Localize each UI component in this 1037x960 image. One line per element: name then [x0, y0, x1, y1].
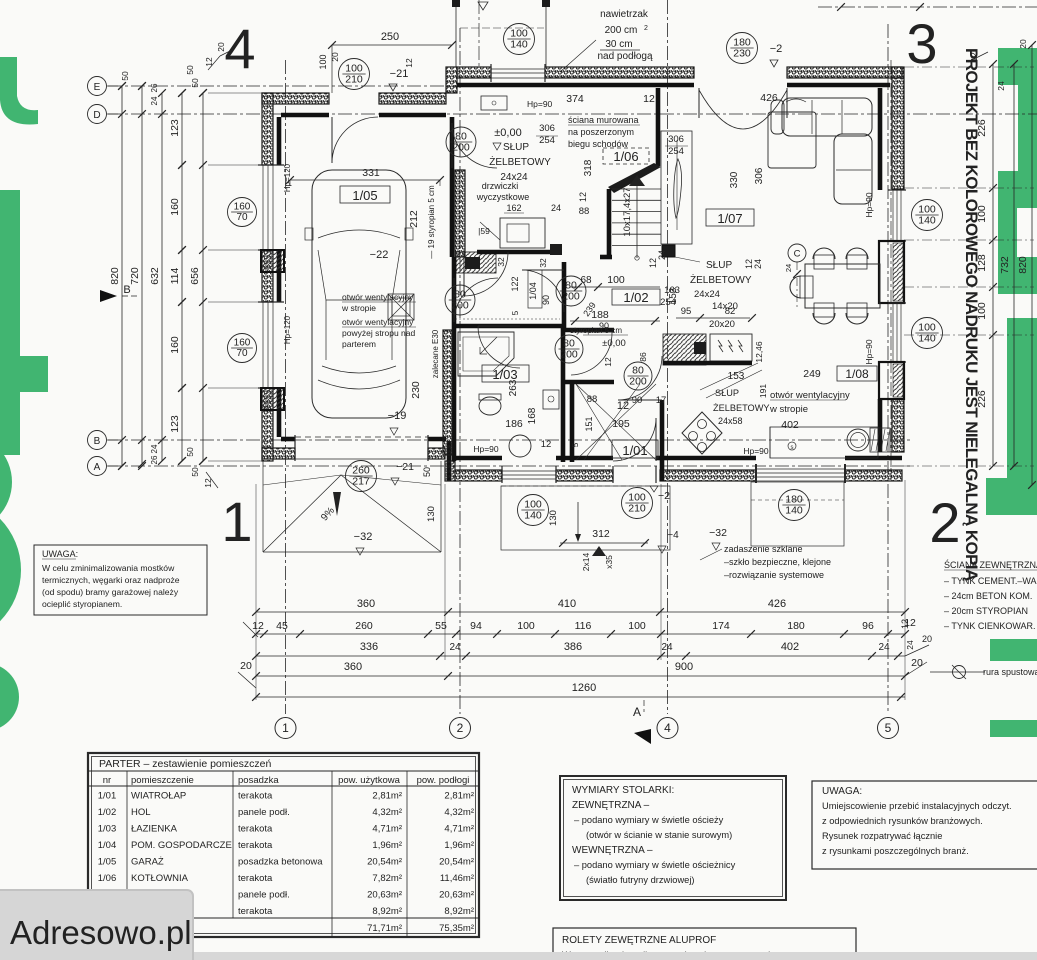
- svg-text:otwór wentylacyjny: otwór wentylacyjny: [342, 317, 414, 327]
- stairs handrail: [674, 159, 682, 218]
- watermark green letter bottom-right bars: [990, 639, 1037, 661]
- stairs treads: [612, 188, 661, 190]
- svg-text:ŁAZIENKA: ŁAZIENKA: [131, 824, 178, 835]
- svg-text:200: 200: [629, 376, 647, 388]
- svg-text:1/06: 1/06: [613, 149, 638, 164]
- svg-text:20: 20: [911, 657, 923, 669]
- axis circle 2: [450, 718, 471, 739]
- watermark green letter top-right: [998, 48, 1037, 85]
- svg-text:±0,00: ±0,00: [494, 127, 521, 139]
- left exterior wall hatch: [262, 93, 273, 165]
- svg-text:32: 32: [496, 257, 506, 267]
- svg-text:230: 230: [733, 48, 751, 60]
- door label circle 100/210 front door: [622, 488, 653, 519]
- svg-text:123: 123: [169, 119, 181, 137]
- svg-text:B: B: [123, 284, 130, 296]
- svg-text:200: 200: [451, 300, 469, 312]
- garage east wall lower: [452, 257, 457, 461]
- right connector stubs: [904, 66, 1034, 68]
- svg-text:210: 210: [628, 503, 646, 515]
- svg-text:biegu schodów: biegu schodów: [568, 139, 629, 149]
- right dim chain 732: [1013, 64, 1015, 466]
- svg-text:terakota: terakota: [238, 824, 273, 835]
- washer circle: [509, 435, 531, 457]
- svg-text:1: 1: [282, 721, 289, 735]
- axis line B horizontal: [108, 439, 912, 441]
- slup leader line: [675, 257, 700, 262]
- svg-text:900: 900: [675, 661, 693, 673]
- svg-text:116: 116: [575, 620, 592, 632]
- svg-text:– podano wymiary w świetle oś: – podano wymiary w świetle ościeży: [574, 815, 724, 825]
- svg-text:160: 160: [234, 338, 251, 349]
- svg-text:ZEWNĘTRZNA –: ZEWNĘTRZNA –: [572, 800, 650, 811]
- svg-text:20,54m²: 20,54m²: [439, 857, 474, 868]
- garage driveway: [262, 461, 264, 552]
- svg-text:1/06: 1/06: [98, 873, 117, 884]
- svg-text:4: 4: [664, 721, 671, 735]
- bottom dim chain row5 1260: [256, 696, 905, 698]
- garage door opening dashed lintel: [295, 436, 428, 438]
- sofa side table: [768, 112, 816, 168]
- svg-text:(otwór w ścianie w stanie suro: (otwór w ścianie w stanie surowym): [586, 830, 732, 840]
- dining table: [805, 264, 880, 308]
- svg-text:140: 140: [510, 39, 528, 51]
- svg-text:−32: −32: [709, 527, 727, 539]
- svg-text:styropian 5 cm: styropian 5 cm: [570, 326, 622, 335]
- entry porch: [501, 486, 670, 550]
- wiatrolap east wall: [660, 400, 665, 481]
- svg-text:1/05: 1/05: [98, 857, 117, 868]
- svg-text:(światło futryny drzwiowej): (światło futryny drzwiowej): [586, 875, 695, 885]
- svg-text:terakota: terakota: [238, 840, 273, 851]
- svg-text:140: 140: [785, 505, 803, 517]
- salon window 180/140 thin lines: [756, 468, 845, 470]
- svg-text:−19: −19: [388, 410, 407, 422]
- axis line A horizontal: [108, 465, 912, 467]
- svg-text:na poszerzonym: na poszerzonym: [568, 127, 634, 137]
- garage-kotlownia wall upper: [450, 117, 455, 168]
- svg-text:24: 24: [905, 640, 915, 650]
- svg-text:100: 100: [607, 274, 625, 286]
- svg-text:200: 200: [560, 349, 578, 361]
- svg-text:210: 210: [345, 74, 363, 86]
- svg-text:2,81m²: 2,81m²: [372, 791, 402, 802]
- svg-text:100: 100: [517, 620, 535, 632]
- svg-text:1,96m²: 1,96m²: [444, 840, 474, 851]
- svg-text:26: 26: [150, 83, 159, 92]
- svg-text:–rozwiązanie systemowe: –rozwiązanie systemowe: [724, 570, 824, 580]
- svg-text:terakota: terakota: [238, 873, 273, 884]
- svg-text:— 19 styropian 5 cm: — 19 styropian 5 cm: [427, 185, 436, 259]
- door label circle 180/230: [727, 33, 758, 64]
- svg-text:posadzka betonowa: posadzka betonowa: [238, 857, 323, 868]
- svg-text:88: 88: [579, 206, 590, 217]
- svg-text:260: 260: [355, 620, 373, 632]
- watermark green disc B left: [0, 497, 21, 643]
- svg-text:1/05: 1/05: [352, 188, 377, 203]
- svg-text:632: 632: [149, 267, 161, 285]
- svg-text:4,71m²: 4,71m²: [444, 824, 474, 835]
- front step hatch x446: [446, 67, 457, 93]
- svg-text:x35: x35: [604, 555, 614, 569]
- watermark green letter fragment top-left: [0, 57, 38, 125]
- svg-text:otwór wentylacyjny: otwór wentylacyjny: [342, 292, 414, 302]
- svg-text:90: 90: [541, 295, 551, 305]
- svg-text:24x24: 24x24: [694, 289, 720, 300]
- bathroom front wall inner face: [455, 456, 502, 461]
- svg-text:140: 140: [524, 510, 542, 522]
- boiler: [500, 218, 545, 248]
- svg-text:8,92m²: 8,92m²: [372, 906, 402, 917]
- axis line 2 vertical: [459, 28, 461, 714]
- svg-text:SŁUP: SŁUP: [503, 142, 529, 153]
- svg-text:75,35m²: 75,35m²: [439, 923, 474, 934]
- front door leaf arc: [655, 418, 657, 461]
- window label circle 160/70 lower: [228, 334, 257, 363]
- garage front wall hatch: [262, 448, 295, 459]
- svg-text:terakota: terakota: [238, 791, 273, 802]
- svg-text:336: 336: [360, 641, 378, 653]
- axis line top porch vertical: [478, 0, 480, 70]
- toilet: [479, 397, 501, 415]
- svg-text:151: 151: [584, 416, 594, 431]
- garage dim 331: [290, 179, 440, 181]
- stairwell opening outline: [661, 131, 692, 244]
- svg-text:s: s: [791, 445, 794, 451]
- svg-text:ŻELBETOWY: ŻELBETOWY: [690, 273, 752, 286]
- svg-text:50: 50: [190, 78, 200, 88]
- svg-text:153: 153: [728, 371, 745, 382]
- svg-text:– TYNK CEMENT.–WAP.: – TYNK CEMENT.–WAP.: [944, 576, 1037, 586]
- bottom leader 20 right: [905, 662, 927, 676]
- svg-text:WYMIARY STOLARKI:: WYMIARY STOLARKI:: [572, 785, 674, 796]
- room label 1/01: [612, 440, 658, 458]
- svg-text:pow. użytkowa: pow. użytkowa: [338, 775, 400, 786]
- svg-text:Rysunek rozpatrywać łącznie: Rysunek rozpatrywać łącznie: [822, 831, 942, 841]
- svg-text:71,71m²: 71,71m²: [367, 923, 402, 934]
- bottom dim chain row3 336/24/386/24/402/24: [256, 655, 905, 657]
- svg-text:820: 820: [1017, 256, 1029, 274]
- svg-text:– podano wymiary w świetle oś: – podano wymiary w świetle ościeżnicy: [574, 860, 736, 870]
- axis line 5 vertical: [887, 24, 889, 714]
- svg-text:720: 720: [129, 267, 141, 285]
- room label 1/03: [482, 365, 529, 382]
- axis line E horizontal: [108, 85, 462, 87]
- svg-text:−21: −21: [390, 68, 409, 80]
- svg-text:410: 410: [558, 598, 576, 610]
- svg-text:4: 4: [224, 17, 255, 80]
- svg-text:pomieszczenie: pomieszczenie: [131, 775, 194, 786]
- svg-text:3: 3: [906, 12, 937, 75]
- svg-text:402: 402: [781, 641, 799, 653]
- svg-text:– 20cm STYROPIAN: – 20cm STYROPIAN: [944, 606, 1028, 616]
- svg-text:w stropie: w stropie: [769, 404, 808, 415]
- PARTER table: [88, 753, 479, 937]
- watermark green letter tall bar left: [0, 190, 20, 455]
- kitchen sink: [847, 429, 869, 451]
- garage side door 100/210 leaf and arc: [331, 117, 333, 163]
- svg-text:24: 24: [784, 264, 793, 272]
- svg-text:12: 12: [900, 619, 910, 629]
- svg-text:ŻELBETOWY: ŻELBETOWY: [713, 403, 770, 413]
- svg-text:12: 12: [643, 93, 655, 105]
- top right dash line: [818, 6, 1037, 8]
- top main wall inner face: [457, 83, 694, 88]
- svg-text:24: 24: [150, 96, 159, 105]
- svg-text:162: 162: [506, 203, 521, 213]
- svg-text:168: 168: [527, 407, 538, 424]
- door label circle 80/200 wiatrolap: [555, 335, 583, 363]
- door 80/200 wiatrolap arc: [571, 331, 612, 333]
- svg-text:94: 94: [470, 620, 482, 632]
- svg-text:160: 160: [169, 198, 181, 216]
- axis circle 5: [878, 718, 899, 739]
- svg-text:SŁUP: SŁUP: [715, 388, 739, 398]
- svg-text:95: 95: [681, 306, 692, 317]
- bathroom front wall hatch: [455, 470, 502, 481]
- svg-text:70: 70: [236, 212, 248, 223]
- svg-text:140: 140: [918, 333, 936, 345]
- svg-text:26: 26: [150, 455, 159, 464]
- svg-text:24: 24: [657, 250, 667, 260]
- svg-text:w stropie: w stropie: [341, 303, 376, 313]
- svg-text:2: 2: [457, 721, 464, 735]
- kitchen counter bottom right: [770, 427, 878, 458]
- svg-text:−21: −21: [396, 461, 414, 473]
- fireplace hatched block: [663, 334, 706, 365]
- door 80/200 garage arc lower: [453, 278, 455, 322]
- left extension stubs: [208, 92, 262, 94]
- bathroom north wall: [455, 324, 564, 329]
- svg-text:ŚCIANA ZEWNĘTRZNA: ŚCIANA ZEWNĘTRZNA: [944, 559, 1037, 570]
- svg-text:174: 174: [712, 620, 730, 632]
- svg-text:50: 50: [190, 467, 200, 477]
- svg-text:24: 24: [753, 259, 763, 269]
- svg-text:732: 732: [999, 256, 1011, 274]
- rura spustowa symbol: [953, 666, 966, 679]
- svg-text:160: 160: [169, 336, 181, 354]
- svg-text:12,46: 12,46: [754, 341, 764, 363]
- svg-text:12: 12: [603, 357, 613, 367]
- svg-text:12: 12: [578, 192, 588, 202]
- svg-text:5: 5: [885, 721, 892, 735]
- svg-text:11,46m²: 11,46m²: [440, 873, 474, 884]
- svg-text:226: 226: [976, 390, 988, 408]
- top-left exterior wall hatch: [262, 93, 329, 104]
- svg-text:140: 140: [918, 215, 936, 227]
- svg-text:96: 96: [862, 620, 874, 632]
- svg-text:24: 24: [996, 81, 1006, 91]
- svg-text:−32: −32: [354, 531, 373, 543]
- svg-text:50: 50: [422, 467, 432, 477]
- svg-text:1/03: 1/03: [98, 824, 117, 835]
- window label circle 100/140 right lower: [912, 318, 943, 349]
- svg-text:200: 200: [452, 142, 470, 154]
- svg-text:ROLETY ZEWĘTRZNE ALUPROF: ROLETY ZEWĘTRZNE ALUPROF: [562, 935, 716, 946]
- column black stairs bottom: [662, 245, 675, 257]
- svg-text:402: 402: [781, 419, 799, 431]
- room label 1/07: [706, 209, 754, 226]
- porch top triangle: [478, 2, 488, 10]
- svg-text:12: 12: [541, 439, 552, 450]
- window label circle 160/70 upper: [228, 198, 257, 227]
- svg-text:Hp=90: Hp=90: [743, 446, 769, 456]
- svg-text:426: 426: [768, 598, 786, 610]
- svg-text:226: 226: [976, 119, 988, 137]
- svg-text:otwór wentylacyjny: otwór wentylacyjny: [770, 390, 850, 401]
- bathroom window 100/140 thin lines: [502, 470, 556, 472]
- axis line 4 vertical: [667, 0, 669, 714]
- svg-text:1/02: 1/02: [623, 290, 648, 305]
- svg-text:−4: −4: [667, 530, 679, 541]
- svg-text:24x58: 24x58: [718, 416, 743, 426]
- svg-text:360: 360: [344, 661, 362, 673]
- svg-text:ŻELBETOWY: ŻELBETOWY: [489, 155, 551, 168]
- svg-text:45: 45: [276, 620, 288, 632]
- svg-text:318: 318: [583, 159, 594, 176]
- zadaszenie porch: [751, 482, 844, 546]
- svg-text:W celu zminimalizowania mostkó: W celu zminimalizowania mostków: [42, 563, 175, 573]
- axis line D horizontal: [108, 113, 1037, 115]
- kotlownia door arc to 1/04: [463, 252, 465, 296]
- bottom dim chain row2: [256, 633, 905, 635]
- svg-text:wyczystkowe: wyczystkowe: [476, 192, 530, 202]
- svg-text:100: 100: [976, 205, 988, 223]
- svg-text:PARTER – zestawienie p: PARTER – zestawienie pomieszczeń: [99, 758, 272, 770]
- svg-text:ocieplić styropianem.: ocieplić styropianem.: [42, 599, 122, 609]
- svg-text:200: 200: [562, 291, 580, 303]
- svg-text:Hp=120: Hp=120: [283, 163, 292, 192]
- svg-text:130: 130: [548, 510, 559, 526]
- bottom dim chain row4 360/900: [256, 675, 905, 677]
- svg-text:360: 360: [357, 598, 375, 610]
- room label 1/02: [612, 289, 660, 305]
- left dim chain 656: [202, 93, 204, 461]
- svg-text:pow. podłogi: pow. podłogi: [417, 775, 470, 786]
- svg-text:82: 82: [725, 306, 736, 317]
- dining chairs: [814, 255, 834, 269]
- svg-text:1260: 1260: [572, 682, 596, 694]
- stairs west wall: [656, 88, 661, 166]
- svg-text:POM. GOSPODARCZE: POM. GOSPODARCZE: [131, 840, 232, 851]
- svg-text:10x17,4x27: 10x17,4x27: [622, 187, 633, 236]
- axis circle 1: [275, 718, 296, 739]
- svg-text:−22: −22: [370, 249, 389, 261]
- svg-text:68: 68: [580, 275, 592, 286]
- left dim chain 632: [161, 93, 163, 461]
- garage front wall inner face: [281, 437, 295, 442]
- svg-text:250: 250: [381, 31, 399, 43]
- svg-text:5: 5: [511, 310, 520, 315]
- axis circle D: [88, 105, 107, 124]
- left dim chain 123/160/114/160/123: [181, 93, 183, 461]
- svg-text:±0,00: ±0,00: [602, 338, 626, 349]
- svg-text:4,32m²: 4,32m²: [444, 807, 474, 818]
- diamond ornament kitchen: [682, 412, 722, 454]
- right wall roleta box lower: [879, 362, 904, 399]
- adresowo watermark bar: [0, 890, 193, 960]
- svg-text:128: 128: [976, 254, 988, 272]
- kotlownia window thin lines: [491, 68, 545, 70]
- svg-text:Hp=90: Hp=90: [864, 339, 874, 365]
- svg-text:1/07: 1/07: [717, 211, 742, 226]
- right wall roleta box upper: [879, 241, 904, 303]
- svg-text:100: 100: [628, 620, 646, 632]
- svg-text:UWAGA:: UWAGA:: [822, 786, 862, 797]
- door label circle 260/217 garage door: [346, 461, 377, 492]
- left wall roleta box lower: [261, 388, 284, 410]
- axis circle 4: [657, 718, 678, 739]
- svg-text:4,71m²: 4,71m²: [372, 824, 402, 835]
- svg-text:20: 20: [240, 660, 252, 672]
- svg-text:114: 114: [169, 267, 181, 284]
- svg-text:KOTŁOWNIA: KOTŁOWNIA: [131, 873, 189, 884]
- svg-text:zalecane E30: zalecane E30: [431, 329, 440, 378]
- kitchen stove box: [710, 334, 752, 361]
- svg-text:24: 24: [150, 444, 159, 453]
- corner sofa: [782, 98, 872, 136]
- svg-text:rura spustowa: rura spustowa: [983, 667, 1037, 677]
- top main wall hatch: [457, 67, 491, 78]
- svg-text:86: 86: [638, 352, 648, 362]
- svg-text:186: 186: [505, 418, 523, 430]
- svg-text:123: 123: [169, 415, 181, 433]
- svg-text:24: 24: [878, 642, 890, 653]
- svg-text:820: 820: [109, 267, 121, 285]
- svg-text:20,63m²: 20,63m²: [367, 890, 402, 901]
- svg-text:1/04: 1/04: [98, 840, 117, 851]
- kotlownia sink symbol: [481, 96, 507, 110]
- svg-text:SŁUP: SŁUP: [706, 260, 732, 271]
- car outline: [312, 170, 406, 418]
- door 80/200 garage-kotlownia arc: [451, 123, 453, 168]
- svg-text:2: 2: [644, 25, 648, 32]
- svg-text:122: 122: [510, 276, 520, 291]
- svg-text:4,32m²: 4,32m²: [372, 807, 402, 818]
- svg-text:drzwiczki: drzwiczki: [482, 181, 519, 191]
- svg-text:−2: −2: [770, 43, 783, 55]
- jog wall x447: [447, 441, 452, 481]
- svg-text:GARAŻ: GARAŻ: [131, 857, 164, 868]
- bottom-right wall hatch: [660, 470, 756, 481]
- svg-text:termicznych, węgarki oraz nadp: termicznych, węgarki oraz nadproże: [42, 575, 180, 585]
- left dim chain 720: [141, 86, 143, 464]
- right exterior wall inner face: [878, 88, 883, 190]
- svg-text:zadaszenie szklane: zadaszenie szklane: [724, 544, 803, 554]
- right wall window upper 100/140: [892, 190, 894, 241]
- svg-text:HOL: HOL: [131, 807, 151, 818]
- window label circle 100/140 right upper: [912, 200, 943, 231]
- bottom-right wall inner face: [668, 456, 756, 461]
- svg-text:386: 386: [564, 641, 582, 653]
- front door opening jambs: [612, 466, 614, 483]
- entry door arc 180/230: [699, 90, 787, 129]
- svg-text:100: 100: [318, 54, 328, 69]
- svg-text:1/01: 1/01: [622, 443, 647, 458]
- svg-text:330: 330: [729, 171, 740, 188]
- svg-text:parterem: parterem: [342, 339, 376, 349]
- top-left exterior wall inner face: [281, 113, 329, 118]
- svg-text:nawietrzak: nawietrzak: [600, 9, 649, 20]
- wiatrolap west wall inner: [570, 384, 575, 462]
- svg-text:50: 50: [185, 447, 195, 457]
- UWAGA box top-left: [34, 545, 207, 615]
- svg-text:24: 24: [551, 203, 561, 213]
- door label circle 80/200 1/04: [556, 276, 586, 306]
- svg-text:WIATROŁAP: WIATROŁAP: [131, 791, 186, 802]
- washbasin bathroom: [543, 390, 559, 409]
- svg-text:7,82m²: 7,82m²: [372, 873, 402, 884]
